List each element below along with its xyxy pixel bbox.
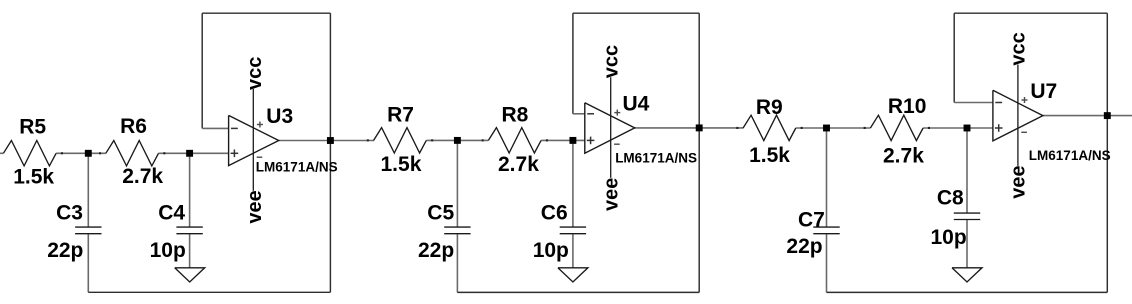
svg-text:vcc: vcc xyxy=(244,57,266,90)
wire R10 to node F xyxy=(923,127,993,129)
wire node F down to C8 xyxy=(966,128,968,213)
node D junction xyxy=(569,137,576,144)
node E junction xyxy=(823,125,830,132)
resistor R8 xyxy=(488,128,541,153)
wire R9 to node E xyxy=(796,127,871,129)
svg-text:2.7k: 2.7k xyxy=(883,144,924,167)
wire bottom feedback stage3 xyxy=(827,291,1108,293)
wire C7 to bottom feedback xyxy=(826,234,828,293)
svg-text:C7: C7 xyxy=(798,209,825,232)
wire to -input U3 xyxy=(202,127,228,129)
svg-text:10p: 10p xyxy=(533,239,569,262)
svg-text:vee: vee xyxy=(1008,165,1030,198)
svg-text:LM6171A/NS: LM6171A/NS xyxy=(615,151,697,166)
capacitor C8 xyxy=(954,212,980,214)
wire feedback top stage1 xyxy=(202,12,330,14)
wire feedback top stage3 xyxy=(954,12,1107,14)
wire input lead xyxy=(0,152,3,154)
wire node A down to C3 xyxy=(87,153,89,227)
svg-text:2.7k: 2.7k xyxy=(498,153,539,176)
svg-text:22p: 22p xyxy=(47,239,83,262)
ground under C8 xyxy=(952,268,982,282)
wire feedback right side stage1 xyxy=(329,13,331,292)
svg-text:10p: 10p xyxy=(931,226,967,249)
wire feedback right side stage3 xyxy=(1106,13,1108,292)
resistor R9 xyxy=(743,115,796,140)
wire C4 to ground xyxy=(189,234,191,268)
wire feedback right side stage2 xyxy=(698,13,700,292)
wire feedback left side stage1 xyxy=(201,13,203,128)
wire U4 output to node out2 xyxy=(635,127,744,129)
svg-text:vcc: vcc xyxy=(601,45,623,78)
wire to -input U4 xyxy=(573,113,585,115)
svg-text:22p: 22p xyxy=(786,235,822,258)
resistor R7 xyxy=(374,128,427,153)
svg-text:1.5k: 1.5k xyxy=(13,165,54,188)
svg-text:C3: C3 xyxy=(56,201,83,224)
wire R6 to node B xyxy=(159,152,190,154)
svg-text:C4: C4 xyxy=(158,201,185,224)
wire R8 to node D xyxy=(541,139,585,141)
vcc pin U4 xyxy=(610,77,612,178)
wire node A to R6 xyxy=(88,152,106,154)
svg-text:vee: vee xyxy=(244,190,266,223)
svg-text:R7: R7 xyxy=(387,104,414,127)
svg-text:C8: C8 xyxy=(937,186,964,209)
wire to -input U7 xyxy=(954,102,993,104)
op-amp U4 xyxy=(585,103,635,153)
svg-text:R5: R5 xyxy=(19,115,46,138)
svg-text:vee: vee xyxy=(601,178,623,211)
vcc pin U7 xyxy=(1017,65,1019,166)
wire node D down to C6 xyxy=(572,140,574,227)
capacitor C4 xyxy=(176,226,202,228)
node out3 junction xyxy=(1104,112,1111,119)
svg-text:2.7k: 2.7k xyxy=(122,165,163,188)
svg-text:1.5k: 1.5k xyxy=(749,144,790,167)
svg-text:R6: R6 xyxy=(120,115,147,138)
svg-text:C5: C5 xyxy=(427,202,454,225)
svg-text:U7: U7 xyxy=(1030,80,1057,103)
ground under C6 xyxy=(558,268,588,282)
resistor R5 xyxy=(3,141,56,166)
node out2 junction xyxy=(696,124,703,131)
svg-text:R9: R9 xyxy=(756,96,783,119)
wire bottom feedback stage1 xyxy=(88,291,330,293)
node B junction xyxy=(186,150,193,157)
node out1 junction xyxy=(327,137,334,144)
svg-text:U3: U3 xyxy=(266,105,293,128)
wire R7 to node C xyxy=(426,139,488,141)
svg-text:vcc: vcc xyxy=(1008,32,1030,65)
node F junction xyxy=(964,125,971,132)
wire C3 to bottom feedback xyxy=(87,234,89,293)
wire feedback left side stage3 xyxy=(953,13,955,102)
ground under C4 xyxy=(175,268,205,282)
wire feedback left side stage2 xyxy=(572,13,574,114)
capacitor C6 xyxy=(560,226,586,228)
wire node C down to C5 xyxy=(456,140,458,227)
resistor R10 xyxy=(870,115,923,140)
op-amp U7 xyxy=(993,90,1043,141)
svg-text:10p: 10p xyxy=(150,239,186,262)
wire C5 to bottom feedback xyxy=(456,234,458,293)
wire node A left xyxy=(56,152,88,154)
svg-text:C6: C6 xyxy=(541,202,568,225)
wire U7 output to right edge xyxy=(1043,115,1132,117)
capacitor C5 xyxy=(444,226,470,228)
wire node B down to C4 xyxy=(189,153,191,227)
op-amp U3 xyxy=(229,115,279,165)
svg-text:1.5k: 1.5k xyxy=(381,153,422,176)
svg-text:22p: 22p xyxy=(418,239,454,262)
wire node B to +input U3 xyxy=(190,152,229,154)
svg-text:R8: R8 xyxy=(502,104,529,127)
wire node E down to C7 xyxy=(826,128,828,227)
capacitor C3 xyxy=(75,226,101,228)
wire bottom feedback stage2 xyxy=(457,291,699,293)
svg-text:LM6171A/NS: LM6171A/NS xyxy=(256,160,338,175)
node C junction xyxy=(454,137,461,144)
wire U3 output to node out1 xyxy=(279,140,374,142)
wire C8 to ground xyxy=(966,220,968,268)
wire feedback top stage2 xyxy=(573,12,699,14)
resistor R6 xyxy=(106,141,159,166)
wire C6 to ground xyxy=(572,234,574,268)
vcc pin U3 xyxy=(252,89,254,191)
svg-text:R10: R10 xyxy=(888,95,927,118)
svg-text:U4: U4 xyxy=(623,93,650,116)
node A junction xyxy=(85,150,92,157)
svg-text:LM6171A/NS: LM6171A/NS xyxy=(1029,148,1111,163)
capacitor C7 xyxy=(813,226,839,228)
